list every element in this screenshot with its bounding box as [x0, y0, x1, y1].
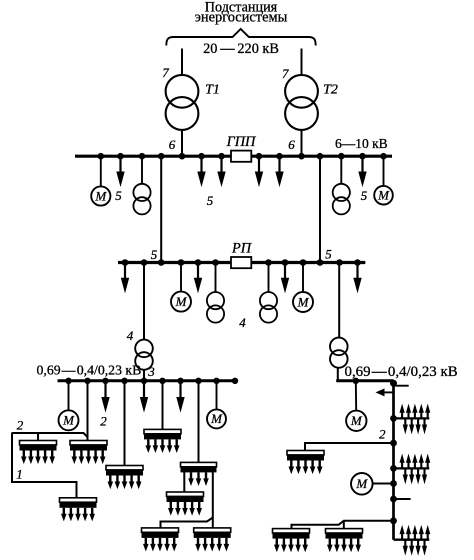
wire to motor M5 — [68, 381, 70, 411]
wire to motor M7 — [355, 381, 357, 411]
svg-text:2: 2 — [100, 414, 107, 429]
motor M2 — [374, 186, 393, 205]
bus 0.4 kV left — [58, 379, 237, 382]
svg-text:М: М — [355, 476, 368, 491]
motor M3 — [171, 292, 191, 312]
wire to trunkings r2 r3 — [292, 521, 394, 529]
busbar trunking (lower) — [106, 466, 143, 490]
wire feeder to trunking — [162, 381, 164, 430]
switch GPP — [231, 151, 251, 162]
comb busbar 3 — [394, 525, 431, 556]
load arrow — [255, 158, 263, 188]
transformer T1 — [166, 75, 199, 130]
busbar trunking r3 — [326, 529, 363, 553]
busbar trunking cascade mid — [167, 492, 204, 516]
wire cascade feed — [183, 472, 185, 492]
wire to motor M3 — [180, 263, 182, 292]
svg-text:М: М — [62, 413, 75, 428]
wire to transformer — [340, 156, 342, 184]
motor M8 — [351, 473, 373, 495]
busbar trunking r1 — [287, 451, 324, 475]
wire stub to trunking — [37, 433, 39, 441]
load arrow — [116, 158, 124, 188]
svg-text:4: 4 — [127, 328, 134, 343]
transformer (shop, left) — [133, 184, 150, 215]
busbar trunking 2a — [20, 441, 57, 465]
comb busbar 2 — [394, 454, 431, 485]
svg-text:4: 4 — [239, 315, 246, 330]
svg-text:5: 5 — [115, 188, 122, 203]
busbar trunking 1 — [60, 498, 97, 522]
shop transformer right descender — [330, 338, 348, 381]
wire descender RP to shop transformer right — [338, 263, 340, 338]
motor M1 — [91, 186, 110, 205]
junction dot — [390, 517, 397, 524]
svg-text:6: 6 — [288, 137, 295, 152]
svg-text:М: М — [377, 188, 390, 203]
junction dots bus RP — [122, 259, 361, 266]
junction dot — [390, 380, 397, 387]
wire descender RP to shop transformer left — [143, 263, 145, 340]
wire stub right — [394, 498, 411, 500]
wire stub right of junction — [394, 385, 409, 387]
wire to transformer — [215, 263, 217, 293]
svg-text:М: М — [175, 294, 188, 309]
wire T1 to bus — [181, 130, 183, 156]
wire supply to T1 — [181, 49, 183, 76]
busbar trunking (mid) — [144, 429, 181, 453]
junction dot — [390, 480, 397, 487]
wire feeder to trunking — [198, 381, 200, 463]
svg-text:2: 2 — [379, 427, 386, 442]
junction dot — [390, 440, 397, 447]
svg-text:М: М — [297, 294, 310, 309]
svg-text:Т1: Т1 — [205, 83, 220, 98]
svg-text:М: М — [210, 411, 223, 426]
transformer below RP left — [207, 292, 224, 323]
load arrow — [176, 382, 184, 413]
svg-text:20 — 220 кВ: 20 — 220 кВ — [203, 41, 279, 57]
load arrow — [194, 264, 202, 294]
svg-text:РП: РП — [231, 241, 253, 257]
svg-text:ГПП: ГПП — [226, 134, 257, 150]
wire cascade branch — [161, 518, 213, 528]
load arrow — [358, 158, 366, 188]
motor M5 — [59, 410, 79, 430]
svg-text:6: 6 — [169, 137, 176, 152]
svg-text:2: 2 — [17, 418, 24, 433]
svg-text:0,69 — 0,4/0,23 кВ: 0,69 — 0,4/0,23 кВ — [37, 363, 142, 378]
busbar trunking cascade bottom left — [142, 528, 179, 552]
svg-text:энергосистемы: энергосистемы — [195, 10, 288, 26]
svg-text:М: М — [94, 188, 107, 203]
svg-text:3: 3 — [147, 364, 155, 379]
wire supply to T2 — [301, 49, 303, 76]
load arrow — [217, 158, 225, 188]
bus 6-10 kV — [75, 155, 392, 158]
wire to motor M2 — [383, 156, 385, 186]
wire feeder to lower trunking — [124, 381, 126, 466]
load arrow — [197, 158, 205, 188]
arrow to other consumers — [376, 388, 394, 396]
svg-text:5: 5 — [361, 188, 368, 203]
svg-text:5: 5 — [207, 193, 214, 208]
svg-text:0,69 — 0,4/0,23 кВ: 0,69 — 0,4/0,23 кВ — [345, 364, 458, 380]
svg-text:5: 5 — [325, 247, 332, 262]
wire T2 to bus — [301, 130, 303, 156]
load arrow — [353, 264, 361, 294]
svg-text:7: 7 — [282, 66, 289, 81]
wire down-left — [12, 433, 77, 498]
wire to transformer — [141, 156, 143, 184]
junction dot — [390, 496, 397, 503]
wire drop to trunking r3 — [343, 521, 345, 529]
motor M6 — [207, 409, 226, 428]
svg-text:7: 7 — [162, 65, 169, 80]
busbar trunking cascade bottom right — [194, 528, 231, 552]
transformer below RP right — [260, 263, 277, 323]
wire to motor M8 — [373, 483, 394, 485]
busbar trunking r2 — [273, 529, 310, 553]
junction dot — [353, 378, 359, 384]
shop transformer left descender — [135, 340, 153, 381]
brace over supply — [166, 29, 315, 46]
svg-text:6—10 кВ: 6—10 кВ — [335, 136, 388, 151]
wire to motor M6 — [216, 381, 218, 410]
junction dot — [390, 415, 397, 422]
svg-text:5: 5 — [151, 247, 158, 262]
motor M7 — [346, 411, 366, 431]
wire to motor M1 — [100, 156, 102, 186]
busbar trunking cascade top — [181, 462, 217, 486]
wire riser bus to RP left — [160, 156, 162, 263]
load arrow — [140, 382, 148, 413]
svg-text:М: М — [350, 413, 363, 428]
wire horizontal to left trunkings — [12, 433, 88, 437]
junction dots bus 0.4 left — [65, 378, 238, 384]
transformer (shop, right) — [333, 184, 350, 215]
wire cascade right drop — [212, 472, 214, 528]
wire riser bus to RP right — [319, 156, 321, 263]
bus 0.4 kV right — [336, 379, 393, 382]
junction dot — [390, 465, 397, 472]
load arrow — [281, 264, 289, 294]
svg-text:Т2: Т2 — [323, 83, 338, 98]
transformer T2 — [285, 75, 318, 130]
load arrow — [275, 158, 283, 188]
load arrow — [121, 264, 129, 294]
motor M4 — [293, 263, 313, 313]
junction dots bus 6-10 kV — [98, 153, 387, 160]
wire feeder to trunking pair — [87, 381, 89, 441]
busbar trunking 2b — [70, 441, 107, 465]
comb busbar 1 — [394, 404, 431, 435]
switch RP — [231, 257, 251, 268]
load arrow — [101, 382, 109, 413]
wire to trunking r1 — [305, 443, 394, 451]
bus RP — [118, 261, 365, 264]
svg-text:1: 1 — [16, 467, 23, 482]
main riser vertical — [392, 381, 395, 540]
